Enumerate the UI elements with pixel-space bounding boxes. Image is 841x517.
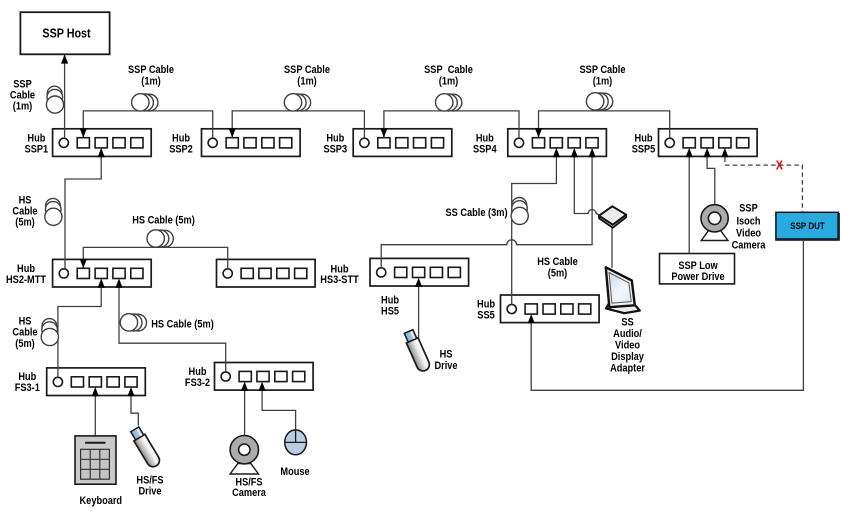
svg-text:SS Cable (3m): SS Cable (3m): [445, 208, 507, 220]
svg-text:SSP: SSP: [739, 203, 758, 215]
wire SSP DUT to Hub SS5 port1: [531, 240, 803, 390]
wire Hub SSP4 port2 to Hub SS5 upstream (SS Cable 3m): [512, 156, 557, 304]
label SSP Cable (1m) 4-5: [580, 64, 626, 88]
HS/FS Drive device: [129, 426, 162, 469]
svg-text:SSP2: SSP2: [169, 144, 193, 156]
hub SSP2 box: [202, 129, 301, 157]
wire Hub HS2-MTT port3 to Hub FS3-2 upstream (HS Cable 5m): [119, 287, 226, 372]
cable coil SSP Cable (1m) SSP1-SSP2: [132, 94, 158, 111]
svg-text:SSP Host: SSP Host: [42, 26, 90, 41]
svg-text:Cable: Cable: [12, 327, 37, 339]
label SSP Cable (1m) 2-3: [284, 64, 330, 88]
svg-text:Power Drive: Power Drive: [671, 272, 725, 284]
svg-text:(1m): (1m): [141, 76, 160, 88]
hub SS5 box: [501, 295, 600, 323]
hub HS3-STT box: [217, 259, 316, 287]
wire Hub FS3-1 port4 to HS/FS Drive: [131, 396, 138, 426]
svg-text:HS Cable: HS Cable: [537, 256, 578, 268]
wire Hub SSP4 port1 to Hub SSP5 upstream (SSP Cable 1m): [539, 111, 670, 138]
svg-text:Keyboard: Keyboard: [80, 495, 123, 507]
svg-text:HS2-MTT: HS2-MTT: [6, 274, 47, 286]
label Hub HS2-MTT: [6, 263, 47, 286]
arrowheads at cable plug ends: [61, 54, 729, 396]
svg-text:SSP: SSP: [13, 79, 32, 91]
wire Hub SSP3 port1 to Hub SSP4 upstream (SSP Cable 1m): [384, 111, 519, 138]
svg-text:HS5: HS5: [381, 306, 399, 318]
label Keyboard: [80, 495, 123, 507]
svg-text:HS Cable (5m): HS Cable (5m): [132, 215, 195, 227]
HS/FS Camera device: [230, 436, 258, 475]
wire Hub SSP1 port2 to Hub HS2-MTT upstream (HS Cable 5m): [65, 156, 101, 268]
svg-text:(1m): (1m): [297, 76, 316, 88]
svg-text:(1m): (1m): [13, 101, 32, 113]
svg-text:SSP5: SSP5: [632, 144, 656, 156]
svg-text:(1m): (1m): [439, 76, 458, 88]
label Hub SSP2: [169, 133, 193, 156]
svg-text:SSP Low: SSP Low: [678, 260, 717, 272]
label Hub HS5: [381, 295, 399, 318]
SSP Low Power Drive box: [660, 254, 735, 284]
wire Hub SSP4 port4 to Hub HS5 upstream (HS Cable 5m), hops over SS cable: [381, 156, 592, 267]
SSP DUT box: [776, 212, 839, 240]
svg-text:Video: Video: [615, 340, 640, 352]
svg-text:SSP3: SSP3: [324, 144, 348, 156]
wire Hub FS3-1 port2 to Keyboard: [94, 396, 96, 436]
svg-text:Camera: Camera: [732, 240, 766, 252]
label HS/FS Camera: [232, 477, 266, 499]
svg-text:SS: SS: [621, 317, 634, 329]
dashed broken link Hub SSP5 port3 to SSP DUT: [725, 158, 803, 213]
label SS Cable (3m): [445, 208, 507, 220]
label Hub SSP4: [473, 133, 497, 156]
label Hub SSP1: [25, 133, 49, 156]
label SSP Cable (1m) 1-2: [128, 64, 174, 88]
svg-text:(5m): (5m): [548, 268, 567, 280]
svg-text:(1m): (1m): [593, 76, 612, 88]
mouse device: [285, 430, 307, 455]
svg-text:(5m): (5m): [15, 338, 34, 350]
cable coil SSP Cable (1m) SSP3-SSP4: [436, 94, 462, 111]
cable coil SS Cable (3m) SSP4-SS5: [511, 198, 528, 225]
label Hub SS5: [477, 299, 495, 322]
label Hub SSP3: [324, 133, 348, 156]
hub FS3-2 box: [215, 363, 314, 391]
hub FS3-1 box: [47, 368, 146, 396]
svg-text:Drive: Drive: [434, 360, 457, 372]
hub SSP5 box: [659, 129, 758, 157]
cable coil SSP Cable (1m) host: [46, 86, 63, 113]
svg-text:FS3-1: FS3-1: [15, 382, 40, 394]
svg-text:SSP Cable: SSP Cable: [424, 64, 473, 76]
svg-text:FS3-2: FS3-2: [185, 377, 210, 389]
svg-text:SS5: SS5: [477, 310, 495, 322]
wire Hub SSP5 port2 to SSP Isoch Video Camera: [707, 156, 715, 204]
svg-text:HS Cable (5m): HS Cable (5m): [151, 319, 214, 331]
HS Drive device: [402, 329, 431, 373]
svg-text:SSP Cable: SSP Cable: [580, 64, 626, 76]
svg-text:Drive: Drive: [138, 486, 161, 498]
label SSP Cable (1m) host: [10, 79, 35, 113]
svg-text:Camera: Camera: [232, 487, 266, 499]
svg-text:Mouse: Mouse: [280, 466, 310, 478]
SSP Isoch Video Camera device: [701, 205, 728, 241]
hub HS5 box: [370, 258, 469, 286]
label Hub SSP5: [632, 133, 656, 156]
cable coil SSP Cable (1m) SSP2-SSP3: [284, 94, 310, 111]
wire Hub SSP4 port3 to SS display adapter dongle, hops over HS cable: [574, 156, 600, 215]
svg-text:Video: Video: [736, 228, 761, 240]
svg-text:SSP1: SSP1: [25, 144, 49, 156]
svg-text:HS: HS: [440, 349, 453, 361]
cable coil SSP Cable (1m) SSP4-SSP5: [586, 93, 612, 110]
label SSP Isoch Video Camera: [732, 203, 766, 252]
label Hub FS3-1: [15, 371, 40, 394]
cable coil HS Cable (5m) HS2-HS3: [147, 230, 173, 247]
svg-text:Isoch: Isoch: [736, 216, 760, 228]
hub SSP4 box: [508, 129, 607, 157]
svg-text:SSP Cable: SSP Cable: [284, 64, 330, 76]
label SSP Cable (1m) 3-4: [424, 64, 473, 88]
svg-text:Hub: Hub: [381, 295, 399, 307]
label Mouse: [280, 466, 310, 478]
svg-text:HS3-STT: HS3-STT: [320, 274, 359, 286]
wire Hub FS3-2 port1 to HS/FS Camera: [244, 390, 246, 436]
label Hub FS3-2: [185, 366, 210, 389]
label HS Cable (5m) SSP4-HS5: [537, 256, 578, 279]
wire Hub HS2-MTT port1 to Hub HS3-STT upstream (HS Cable 5m): [83, 247, 227, 268]
label HS Cable (5m) HS2-HS3: [132, 215, 195, 227]
label HS Drive: [434, 349, 457, 372]
svg-text:Display: Display: [611, 351, 644, 363]
svg-text:SSP DUT: SSP DUT: [790, 220, 825, 231]
label HS Cable (5m) left lower: [12, 316, 37, 350]
wire Hub SSP2 port1 to Hub SSP3 upstream (SSP Cable 1m): [232, 111, 364, 138]
wire Hub FS3-2 port2 to Mouse: [262, 390, 296, 430]
wire Hub HS2-MTT port2 to Hub FS3-1 upstream (HS Cable 5m): [58, 287, 101, 377]
SS display monitor: [606, 267, 640, 313]
wire Hub SSP1 port1 to Hub SSP2 upstream (SSP Cable 1m): [83, 111, 212, 138]
label HS Cable (5m) HS2-FS3-2: [151, 319, 214, 331]
SSP Host box: [20, 12, 109, 54]
label HS/FS Drive: [136, 475, 163, 498]
keyboard device: [75, 436, 116, 484]
SS display adapter dongle: [599, 206, 626, 227]
svg-text:Hub: Hub: [477, 299, 495, 311]
hub SSP3 box: [353, 129, 452, 157]
hub HS2-MTT box: [53, 259, 152, 287]
svg-text:SSP Cable: SSP Cable: [128, 64, 174, 76]
label Hub HS3-STT: [320, 264, 359, 286]
svg-text:SSP4: SSP4: [473, 144, 497, 156]
cable coil HS Cable (5m) HS2-FS3-2: [120, 314, 146, 331]
svg-text:Audio/: Audio/: [613, 328, 642, 340]
svg-text:(5m): (5m): [15, 217, 34, 229]
wire Hub HS5 port2 to HS Drive: [418, 286, 420, 340]
wire dongle to SS display monitor: [611, 225, 613, 268]
wire Hub SSP5 port1 to SSP Low Power Drive: [688, 156, 690, 253]
wire SSP Host to Hub SSP1 upstream port: [64, 55, 66, 139]
label HS Cable (5m) left: [12, 195, 37, 229]
svg-text:Adapter: Adapter: [610, 363, 645, 375]
hub SSP1 box: [53, 129, 152, 157]
cable coil HS Cable (5m) SSP1-HS2: [45, 198, 62, 225]
label SS Audio/Video Display Adapter: [610, 317, 645, 375]
cable coil HS Cable (5m) HS2-FS3-1: [41, 319, 58, 346]
